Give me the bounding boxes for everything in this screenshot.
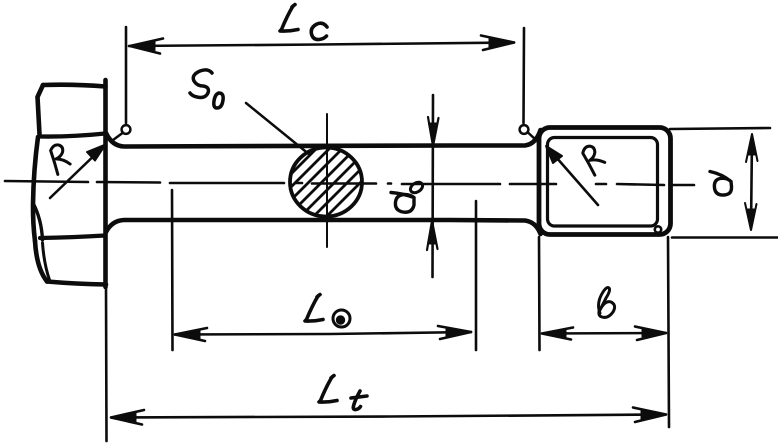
- shank top line with fillets: [106, 130, 541, 147]
- Lc right extension line: [522, 28, 525, 123]
- label L-sub-o: [305, 295, 350, 328]
- d dimension line: [751, 137, 752, 228]
- Lc right arrowhead: [481, 36, 514, 51]
- Lt dimension line: [112, 415, 665, 418]
- Lt left extension line (head edge extended): [105, 288, 108, 441]
- head bottom face left arc: [43, 243, 50, 280]
- label S0: [190, 70, 223, 108]
- b dimension line: [543, 332, 665, 335]
- pen loop at thread inner corner: [655, 226, 661, 232]
- circle vertical centerline: [326, 114, 328, 247]
- threaded end inner chamfer outline: [548, 138, 658, 227]
- shank cross-section circle S0: [290, 148, 362, 217]
- threaded end outer outline: [539, 128, 671, 235]
- cross-section hatching: [230, 128, 415, 235]
- d top arrowhead (up): [748, 134, 756, 155]
- shank bottom line with fillets: [106, 220, 541, 234]
- R right label (rotated): [576, 144, 607, 175]
- L-sub-o left extension line: [171, 190, 174, 350]
- d bottom arrowhead (down): [747, 209, 755, 230]
- d0 upper arrowhead (down): [429, 123, 438, 146]
- label d (rotated): [710, 172, 732, 196]
- label Lc: [280, 5, 327, 40]
- Lc left arrowhead: [130, 39, 164, 54]
- L-sub-o right extension line: [475, 201, 478, 350]
- Lc left junction circle: [122, 125, 131, 134]
- L-sub-o dimension line: [175, 332, 471, 335]
- Lc left extension line: [125, 27, 128, 123]
- Lt right arrowhead: [633, 408, 666, 423]
- b right arrowhead: [635, 327, 666, 341]
- b left extension line (thread left edge extended): [538, 237, 541, 350]
- d0 upper arrow line: [431, 95, 434, 277]
- d bottom extension line: [672, 236, 778, 239]
- b right extension line (thread right edge extended): [668, 237, 669, 427]
- head middle face left lens arc: [33, 203, 43, 240]
- L-sub-o right arrowhead: [438, 326, 471, 339]
- b left arrowhead: [542, 328, 573, 340]
- hex head outline: [33, 80, 106, 287]
- label Lt: [319, 376, 367, 410]
- d top extension line: [670, 128, 770, 129]
- label d0 (rotated): [391, 180, 424, 212]
- head face line upper: [40, 134, 105, 137]
- head face line lower: [40, 236, 105, 239]
- L-sub-o left arrowhead: [175, 328, 207, 341]
- R right leader arrow: [546, 146, 598, 205]
- axis centerline: [5, 181, 694, 185]
- Lc right junction circle: [520, 125, 529, 134]
- R left leader arrow: [50, 145, 106, 199]
- Lc dimension line: [129, 43, 514, 47]
- S0 leader line: [246, 103, 310, 155]
- d0 lower arrowhead (up): [428, 221, 437, 244]
- label b: [599, 288, 615, 318]
- Lt left arrowhead: [111, 410, 144, 425]
- label R left (rotated): [44, 143, 73, 175]
